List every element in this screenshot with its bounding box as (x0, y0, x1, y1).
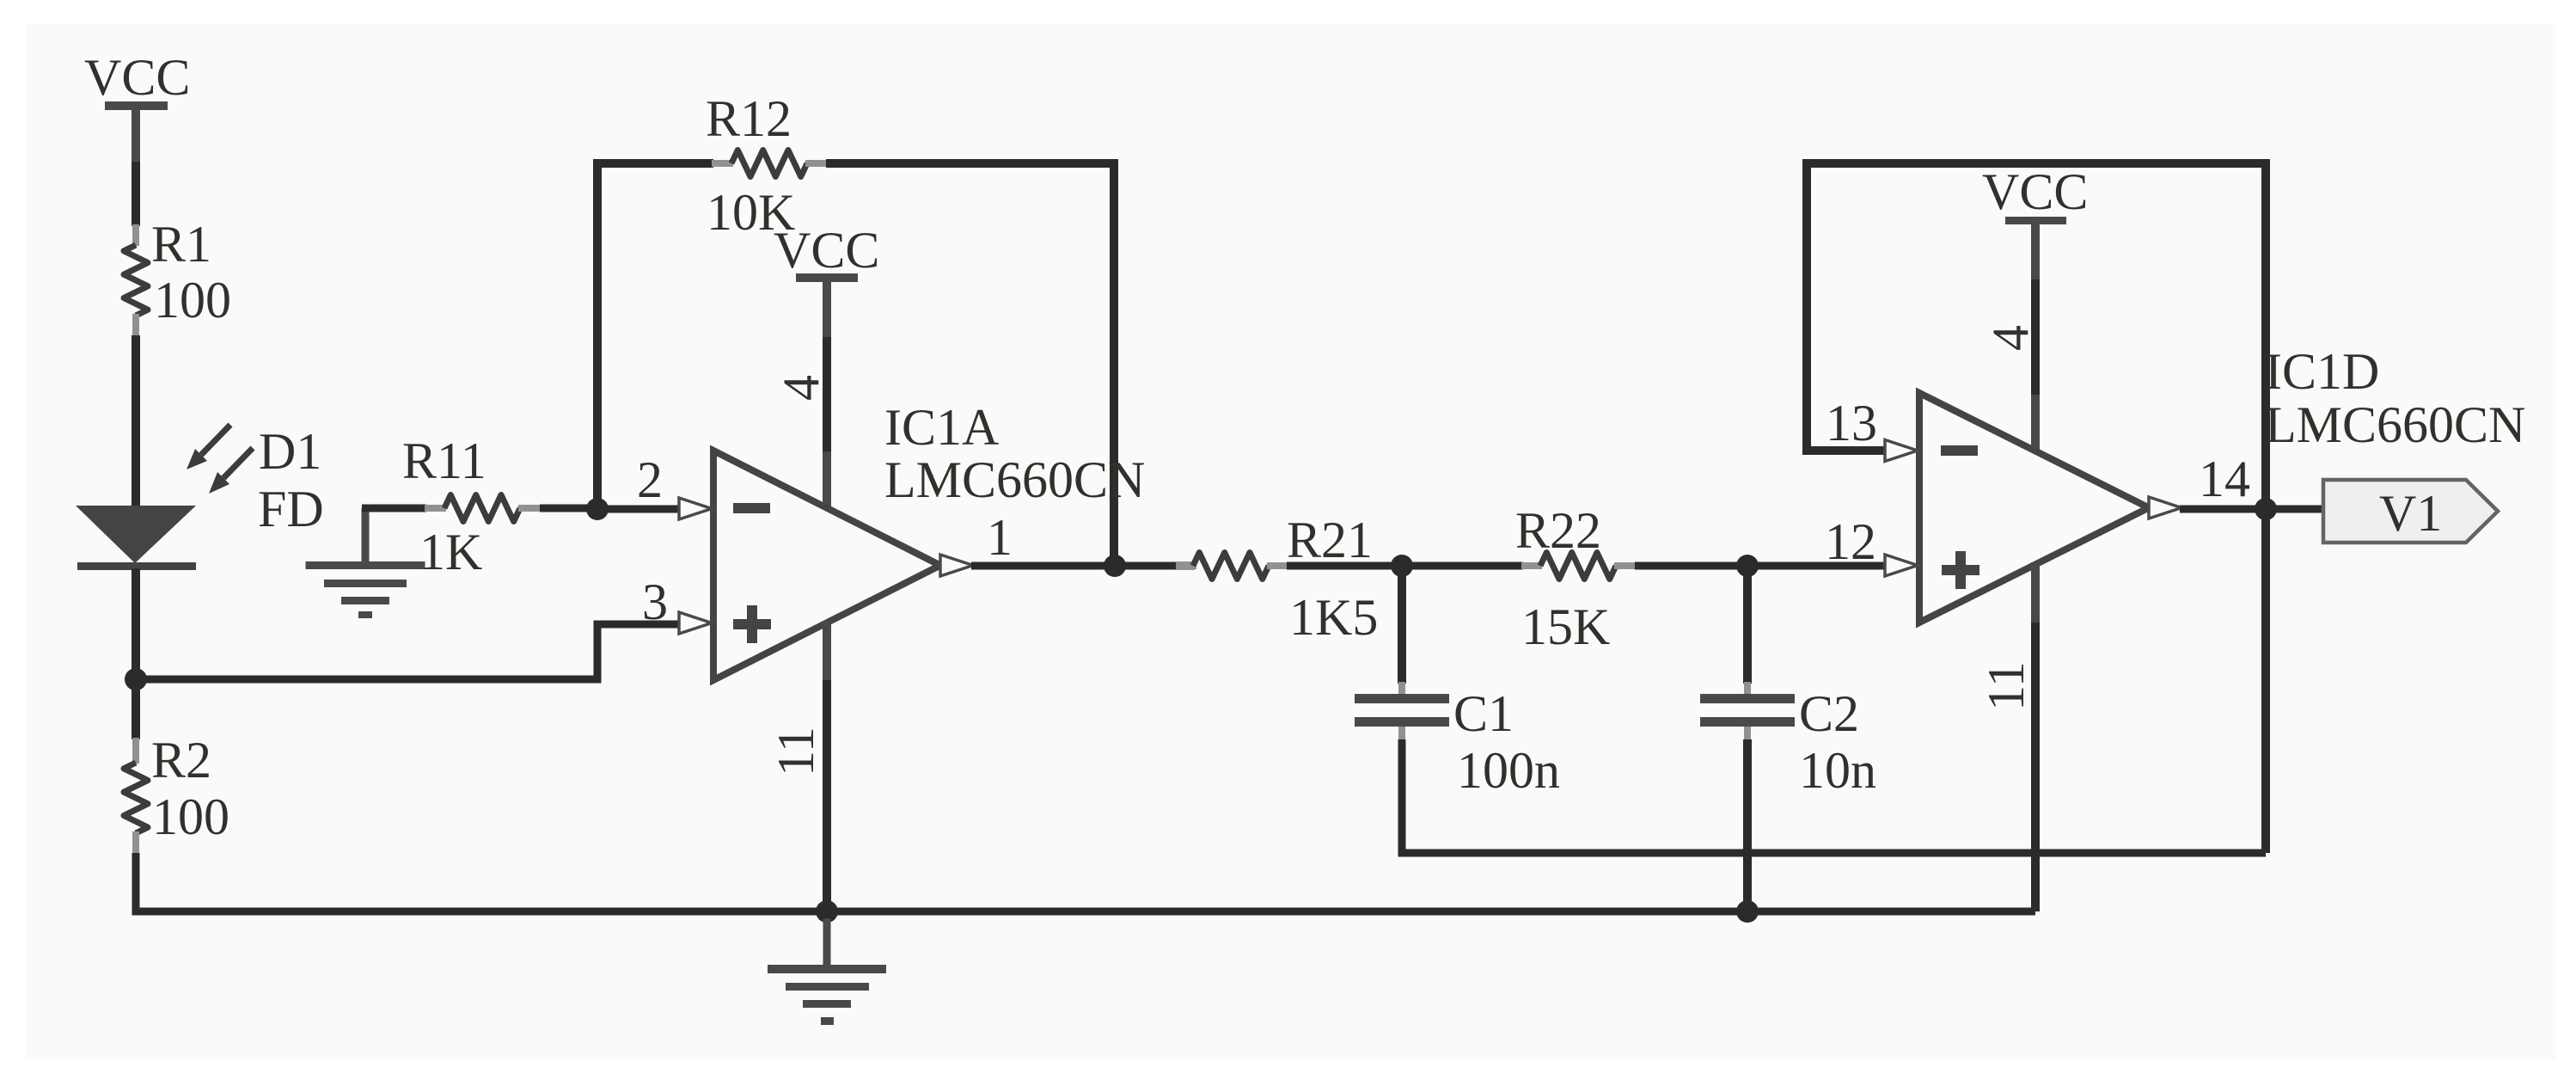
junction node at C2 (1736, 555, 1759, 577)
power VCC symbol (IC1D pin 4) (1982, 163, 2088, 224)
wire R12 right and down to output node (826, 163, 1114, 566)
svg-text:R1: R1 (151, 216, 211, 273)
label IC1D (2265, 343, 2379, 400)
label C1 (1453, 685, 1514, 742)
svg-text:LMC660CN: LMC660CN (884, 451, 1145, 508)
pin label 11 (IC1D) (1978, 661, 2034, 711)
value label 100 (R2) (152, 788, 229, 845)
wire VCC to IC1A pin 4 (823, 282, 831, 508)
value label 100n (C1) (1457, 742, 1560, 799)
svg-text:4: 4 (773, 375, 829, 401)
resistor R2 (124, 738, 148, 855)
wire C1 bottom to IC1D output (feedback) (1402, 739, 2266, 853)
wire output node to R21 (971, 562, 1195, 570)
power VCC symbol (IC1A pin 4) (774, 222, 879, 282)
wire IC1D output to V1 (2180, 506, 2326, 513)
capacitor C1 (1355, 562, 1449, 741)
resistor R12 (712, 150, 828, 177)
label R21 (1287, 512, 1373, 568)
svg-text:VCC: VCC (1982, 163, 2088, 220)
resistor R1 (124, 224, 148, 337)
value label 100 (R1) (154, 272, 231, 328)
resistor R22 (1521, 553, 1637, 580)
capacitor C2 (1700, 562, 1795, 741)
wire node to R2 (132, 676, 140, 739)
svg-text:10n: 10n (1799, 742, 1876, 799)
svg-text:R21: R21 (1287, 512, 1373, 568)
svg-text:1K5: 1K5 (1289, 589, 1378, 646)
resistor R21 (1176, 553, 1289, 580)
svg-text:R12: R12 (706, 90, 792, 147)
op-amp IC1D triangle (1919, 393, 2149, 623)
junction node at C1 (1391, 555, 1413, 577)
svg-text:FD: FD (258, 481, 324, 537)
svg-text:VCC: VCC (774, 222, 879, 279)
output flag V1 (2323, 480, 2498, 543)
svg-text:R11: R11 (402, 433, 486, 489)
junction node at op-amp pin 2 (586, 498, 609, 520)
ground symbol (near R11) (306, 508, 425, 618)
power VCC symbol (top left) (105, 101, 168, 165)
ground symbol (below IC1A) (768, 918, 886, 1025)
net label VCC (top left) (84, 49, 190, 106)
pin 13 input arrow (1885, 440, 1918, 462)
value label 15K (R22) (1521, 598, 1610, 655)
wire R22 to IC1D pin 12 (1635, 562, 1884, 570)
wire IC1A pin 11 to ground bus (823, 621, 831, 911)
value label 1K5 (R21) (1289, 589, 1378, 646)
pin label 13 (1826, 395, 1877, 451)
value label LMC660CN (IC1D) (2265, 396, 2525, 453)
pin label 4 (IC1D) (1982, 325, 2039, 351)
value label FD (D1) (258, 481, 324, 537)
wire R1 to D1 (132, 335, 140, 507)
pin 12 input arrow (1885, 555, 1918, 576)
wire IC1D output down to feedback (2261, 509, 2270, 853)
label D1 (259, 423, 321, 480)
wire R21 to R22 (1287, 562, 1523, 570)
pin 3 input arrow (679, 612, 712, 634)
pin label 4 (IC1A) (773, 375, 829, 401)
net label V1 (2379, 485, 2442, 542)
svg-text:11: 11 (768, 727, 824, 776)
op-amp IC1A triangle (713, 451, 940, 680)
value label 10K (R12) (707, 184, 795, 241)
svg-text:VCC: VCC (84, 49, 190, 106)
svg-text:V1: V1 (2379, 485, 2442, 542)
svg-text:R22: R22 (1515, 502, 1601, 559)
svg-text:IC1A: IC1A (884, 399, 999, 456)
wire IC1D pin 11 to ground bus (2031, 562, 2040, 911)
wire VCC to IC1D pin 4 (2031, 224, 2040, 451)
svg-text:3: 3 (642, 574, 668, 630)
wire node to op-amp pin 2 (- input) (597, 506, 679, 513)
label R1 (151, 216, 211, 273)
label R2 (151, 732, 211, 788)
svg-text:100: 100 (152, 788, 229, 845)
pin 2 input arrow (679, 498, 712, 519)
label IC1A (884, 399, 999, 456)
pin label 2 (637, 451, 663, 508)
value label 10n (C2) (1799, 742, 1876, 799)
label C2 (1799, 685, 1859, 742)
label R22 (1515, 502, 1601, 559)
resistor R11 (362, 495, 602, 522)
svg-text:12: 12 (1825, 513, 1876, 570)
svg-text:13: 13 (1826, 395, 1877, 451)
junction node pin11/ground (816, 900, 838, 923)
junction node C2/ground bus (1736, 900, 1759, 923)
wire D1 to node (132, 568, 140, 679)
label 1K (R11 value) (419, 524, 482, 580)
output pin 1 arrow (940, 555, 973, 576)
svg-text:C1: C1 (1453, 685, 1514, 742)
svg-text:4: 4 (1982, 325, 2039, 351)
wire IC1D pin 13 feedback loop (1807, 163, 2266, 509)
pin label 12 (1825, 513, 1876, 570)
photodiode D1 (76, 506, 196, 570)
pin label 14 (2199, 451, 2250, 507)
D1 light arrow 2 (209, 448, 253, 494)
junction node at IC1A output (1104, 555, 1126, 577)
svg-text:R2: R2 (151, 732, 211, 788)
svg-text:100: 100 (154, 272, 231, 328)
svg-text:IC1D: IC1D (2265, 343, 2379, 400)
pin label 11 (IC1A) (768, 727, 824, 776)
junction node IC1D output (2255, 498, 2277, 520)
svg-text:LMC660CN: LMC660CN (2265, 396, 2525, 453)
output pin 14 arrow (2149, 497, 2181, 518)
svg-text:100n: 100n (1457, 742, 1560, 799)
wire VCC to R1 (132, 162, 140, 226)
ground bus wire (bottom) (136, 853, 2035, 911)
svg-text:15K: 15K (1521, 598, 1610, 655)
svg-text:11: 11 (1978, 661, 2034, 711)
value label LMC660CN (IC1A) (884, 451, 1145, 508)
junction node at D1/R2 (125, 668, 147, 690)
label R11 (402, 433, 486, 489)
svg-text:1: 1 (987, 509, 1013, 566)
svg-text:C2: C2 (1799, 685, 1859, 742)
label R12 (706, 90, 792, 147)
svg-text:14: 14 (2199, 451, 2250, 507)
pin label 3 (642, 574, 668, 630)
svg-text:1K: 1K (419, 524, 482, 580)
wire C2 bottom to ground bus (1743, 739, 1752, 911)
svg-text:D1: D1 (259, 423, 321, 480)
D1 light arrow 1 (187, 425, 230, 469)
pin label 1 (987, 509, 1013, 566)
wire pin2 node up and right to R12 (597, 163, 713, 513)
svg-text:2: 2 (637, 451, 663, 508)
wire node to op-amp pin 3 (+ input) (136, 624, 679, 679)
